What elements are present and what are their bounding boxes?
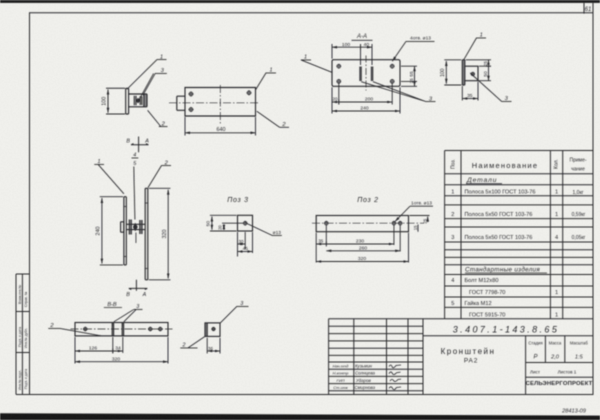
slot 2 <box>371 67 373 82</box>
leader 3 two lines <box>361 82 435 102</box>
hole bottom-left <box>189 108 193 112</box>
title block signature row lines <box>329 326 423 391</box>
leader 1 <box>464 38 487 60</box>
underline Стандартные изделия <box>465 272 547 274</box>
right plate poz2 <box>145 188 148 279</box>
dim 20 200 <box>332 101 392 103</box>
left margin rotated labels <box>18 285 28 390</box>
dim 640 <box>185 132 256 134</box>
hole LB <box>337 80 341 84</box>
bolt assembly <box>121 220 146 235</box>
centerline <box>312 222 424 224</box>
dim 320 <box>75 361 168 363</box>
centerline vertical <box>219 85 221 126</box>
leader 2 <box>48 328 101 335</box>
bottom extensions <box>316 226 408 263</box>
underline Детали <box>466 183 502 185</box>
plate outline <box>332 60 400 87</box>
leader 2 <box>148 110 168 126</box>
small plate with hole <box>465 66 478 81</box>
section mark bottom B-A <box>129 280 148 291</box>
vertical centerline <box>365 56 367 91</box>
dim 126 / 34 <box>75 350 123 352</box>
leader 2 <box>257 111 289 127</box>
signatures squiggles <box>389 365 401 390</box>
left plate poz1 <box>124 197 126 265</box>
dim 320 <box>316 261 408 263</box>
left tab <box>177 96 185 110</box>
bottom extensions holes <box>332 84 400 114</box>
dim 35 230 <box>316 243 394 245</box>
left margin stamp box <box>16 274 30 395</box>
dim 20 <box>222 222 243 224</box>
slot dark fills (section B-B) <box>112 323 114 327</box>
dim 100 left <box>444 60 461 85</box>
plate outline <box>185 88 256 117</box>
hole tick marks on plates (assembly) <box>123 203 148 269</box>
hole RT <box>390 64 394 68</box>
leader 4/5 <box>132 158 139 220</box>
slot lines <box>112 323 123 336</box>
vertical plate poz1 edge <box>126 88 129 114</box>
vertical plate edge <box>462 60 465 85</box>
right extensions <box>401 66 417 86</box>
callout underline + leader <box>392 41 434 61</box>
extension lines <box>185 117 256 136</box>
dim 240 <box>332 110 400 112</box>
signature column roles <box>333 364 350 391</box>
bolt head diamond (view 1) <box>136 98 141 104</box>
dim 25/50 right <box>488 60 490 81</box>
dim 100 left <box>106 88 125 114</box>
slot dark fills (section A-A) <box>360 67 361 82</box>
centerline horizontal <box>169 102 259 104</box>
sheet top edge band <box>0 0 600 3</box>
hole LT <box>337 64 341 68</box>
dim 320 <box>149 188 171 279</box>
plate outline <box>75 323 168 336</box>
leader 3 <box>114 309 143 322</box>
extensions <box>75 337 168 364</box>
bolt diamond (assembly) <box>133 223 138 231</box>
dim 45 <box>238 251 253 253</box>
right extensions <box>466 60 491 81</box>
top-right sheet number cell <box>584 3 593 14</box>
spec table rows <box>451 177 585 318</box>
leader 1 <box>256 73 276 90</box>
below extensions <box>238 232 253 257</box>
hole <box>471 72 474 75</box>
leader 3 (two lines) <box>139 73 167 99</box>
specification table grid <box>445 151 593 319</box>
leader 3 <box>470 73 511 101</box>
horizontal member poz2 edge <box>129 94 147 107</box>
leader 2 down-left <box>180 336 205 348</box>
signature names <box>355 364 376 391</box>
dim 50 <box>210 215 237 231</box>
hole top-left <box>189 92 193 96</box>
sheet bottom edge band <box>0 413 600 420</box>
washer / nut lines <box>134 96 142 105</box>
dim 260 <box>326 250 400 252</box>
leader 1 <box>127 60 167 90</box>
leader 1 <box>94 164 124 194</box>
bottom dim 35 <box>462 82 478 101</box>
title underline <box>352 39 373 41</box>
hole right <box>247 91 251 95</box>
dim 36 <box>207 338 220 354</box>
right extensions + dims <box>410 215 430 217</box>
dim 30 <box>238 243 246 245</box>
hole RB <box>390 80 394 84</box>
centerline <box>71 328 173 330</box>
leader d13 <box>245 223 282 236</box>
title block grid <box>329 319 593 395</box>
dim 100 / 40 top <box>332 46 372 48</box>
slot 1 <box>360 67 362 82</box>
holes <box>84 327 87 330</box>
top extensions <box>332 44 372 65</box>
leader 2 <box>148 166 171 188</box>
dim 240 <box>100 197 123 265</box>
dim 55/25 right <box>414 66 416 86</box>
leader 1 left <box>301 60 333 73</box>
leader 3 up-right <box>220 306 248 323</box>
